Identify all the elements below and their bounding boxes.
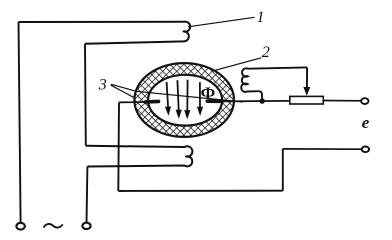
wire vertical up to terminal e lower xyxy=(282,149,284,191)
pointer line for 1 xyxy=(188,17,255,27)
winding stub right (conductor threading core) xyxy=(207,99,219,103)
svg-text:e: e xyxy=(362,113,370,132)
coil 2 (winding, bottom) xyxy=(86,146,193,167)
wire bottom horizontal xyxy=(118,190,282,192)
winding stub left (conductor threading core) xyxy=(146,100,159,104)
terminal e upper xyxy=(361,98,368,104)
pointer line for 2 xyxy=(213,58,261,71)
pointer line for 3 (short, to core) xyxy=(111,85,134,97)
terminal AC right xyxy=(82,223,90,229)
svg-text:3: 3 xyxy=(98,76,107,93)
wiper arrow onto rheostat xyxy=(303,67,310,95)
core ring (toroid, hatched annulus) xyxy=(134,63,234,137)
wire core right to resistor and terminal xyxy=(218,100,361,103)
pointer line for 3 (long, to threading conductor) xyxy=(111,84,243,102)
AC source symbol ~ xyxy=(44,224,63,228)
wire to core left (from bottom circuit) xyxy=(119,101,150,103)
terminal e lower xyxy=(362,147,369,153)
wire left vertical (AC line to coil 1) xyxy=(19,22,21,223)
junction dot xyxy=(260,98,265,103)
svg-text:1: 1 xyxy=(257,9,265,26)
flux arrow 4 xyxy=(197,82,203,116)
flux arrow 3 xyxy=(184,80,190,120)
wire vertical left-of-core down xyxy=(117,102,120,191)
terminal AC left xyxy=(16,223,24,230)
wire to lower right terminal xyxy=(283,148,362,150)
wire vertical A (coil1 to coil2) xyxy=(84,44,87,146)
resistor R (rheostat body) xyxy=(290,96,324,104)
wire vertical B (coil2 to AC terminal) xyxy=(86,167,89,223)
flux arrow 2 xyxy=(176,80,182,119)
svg-text:2: 2 xyxy=(262,44,270,61)
coil 3 (feedback winding, right) xyxy=(241,67,307,99)
flux arrow 1 xyxy=(165,82,171,116)
coil 1 (series winding, top) xyxy=(19,22,191,44)
